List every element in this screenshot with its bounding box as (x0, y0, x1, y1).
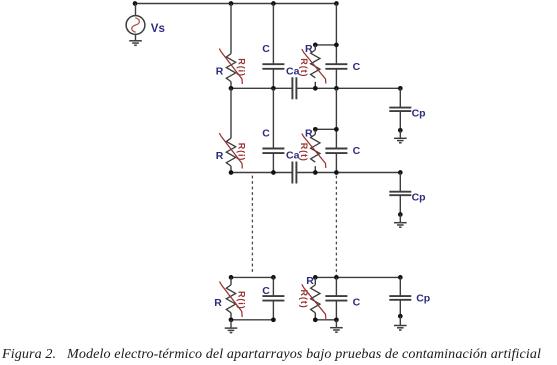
wire rail2 left part (231, 172, 292, 174)
svg-text:C: C (262, 127, 270, 139)
svg-text:R(i): R(i) (237, 291, 247, 310)
wire R3 top (230, 88, 232, 138)
wire Vs to top rail (135, 4, 137, 16)
resistor R6 (R(t)) bottom right (311, 285, 320, 313)
wire bottom-left rail (231, 319, 273, 321)
dashed continuation left (251, 176, 253, 273)
wire R6 top (314, 277, 316, 285)
wire top rail (135, 3, 336, 5)
wire R4 top stem (314, 129, 316, 134)
resistor R1 (R(i)) section 1 left (226, 54, 235, 82)
svg-text:R(t): R(t) (299, 143, 309, 162)
wire jog section 1 (315, 44, 336, 46)
svg-text:R(i): R(i) (237, 143, 247, 162)
ground at Cp2 (394, 223, 407, 228)
wire to ground bottom-left (230, 320, 232, 328)
junction bottom-right rail at C (334, 317, 339, 322)
resistor R4 (R(t)) section 2 right (311, 134, 320, 162)
svg-text:C: C (262, 43, 270, 55)
ground at Cp1 (394, 138, 407, 143)
junction rail2 at C right (334, 170, 339, 175)
resistor R3 (R(i)) section 2 left (226, 138, 235, 166)
junction rail1 at Cp corner (398, 86, 403, 91)
svg-text:R: R (305, 43, 313, 55)
junction rail1 at C1 (271, 86, 276, 91)
junction bottom-left rail at R5 (229, 317, 234, 322)
caption Figura 2 (2, 346, 557, 363)
capacitor C section 2 left (262, 149, 284, 154)
wire C bottom-left top (272, 277, 274, 296)
svg-text:R: R (216, 66, 224, 78)
wire Cp1 bottom (399, 111, 401, 130)
variable arrow on R2 (302, 49, 326, 84)
ground at Vs (129, 41, 142, 46)
wire R3 bottom (230, 166, 232, 172)
junction jog2 left (313, 127, 318, 132)
junction bottom-left rail at C (271, 317, 276, 322)
svg-text:Cp: Cp (412, 192, 426, 204)
capacitor Cp3 (389, 296, 411, 300)
junction rail1 at R1 (229, 86, 234, 91)
wire R1 bottom (230, 82, 232, 89)
variable arrow on R1 (219, 49, 242, 85)
capacitor Cp1 (389, 108, 411, 112)
wire Cp2 top (399, 173, 401, 192)
junction rail2 at R3 (229, 170, 234, 175)
capacitor C section 1 left (262, 64, 284, 69)
variable arrow on R6 (302, 284, 326, 319)
junction top rail at C column (271, 1, 276, 6)
junction jog1 right (334, 43, 339, 48)
junction bottom-right rail at R6 (313, 317, 318, 322)
svg-text:Cp: Cp (412, 107, 426, 119)
svg-text:Cp: Cp (416, 293, 430, 305)
junction rail3 at C left (271, 275, 276, 280)
junction top rail right corner (334, 1, 339, 6)
junction top rail at R column (229, 1, 234, 6)
capacitor C section 1 right (325, 64, 347, 69)
capacitor Ca section 2 (292, 162, 296, 184)
ground bottom right (330, 328, 343, 333)
capacitor Ca section 1 (292, 77, 296, 99)
wire R6 bottom (314, 313, 316, 320)
junction rail2 at C2 (271, 170, 276, 175)
wire C bottom-right top (335, 277, 337, 296)
wire Cp3 to ground (399, 316, 401, 325)
junction Cp2 bottom (398, 212, 403, 217)
svg-text:R(t): R(t) (299, 290, 309, 309)
svg-text:C: C (262, 285, 270, 297)
wire R5 top (230, 277, 232, 285)
wire bottom-right rail (315, 319, 336, 321)
wire C1 bottom (272, 69, 274, 89)
wire Cp2 to ground (399, 215, 401, 223)
resistor R2 (R(t)) section 1 right (311, 50, 320, 78)
junction top rail at Vs (133, 1, 138, 6)
junction jog1 left (313, 43, 318, 48)
wire C2 bottom (272, 153, 274, 172)
junction rail3 at C right (334, 275, 339, 280)
wire C bottom-left bottom (272, 301, 274, 320)
capacitor Cp2 (389, 192, 411, 196)
svg-text:C: C (353, 145, 361, 157)
dashed continuation right (335, 176, 337, 276)
svg-text:R: R (305, 128, 313, 140)
junction Cp3 bottom (398, 314, 403, 319)
wire rail1 right part (296, 87, 400, 89)
junction rail1 at R2 (313, 86, 318, 91)
junction Cp1 bottom (398, 128, 403, 133)
variable arrow on R4 (302, 133, 326, 168)
wire rail2 right part (296, 172, 400, 174)
wire C right section1 bottom (335, 69, 337, 89)
svg-text:Ca: Ca (286, 65, 300, 77)
wire rail3 right group (315, 276, 400, 278)
wire Cp3 bottom (399, 300, 401, 316)
svg-text:Vs: Vs (151, 23, 165, 35)
wire R2 bottom (314, 82, 316, 89)
wire C1 top (272, 4, 274, 65)
capacitor C bottom right (325, 296, 347, 301)
junction rail2 at Cp corner (398, 170, 403, 175)
wire R5 bottom (230, 313, 232, 320)
wire R1 top (230, 4, 232, 54)
junction rail3 at R5 (229, 275, 234, 280)
ground bottom left (225, 328, 238, 333)
capacitor C bottom left (262, 296, 284, 301)
wire Cp3 top (399, 277, 401, 296)
junction rail3 at Cp3 (398, 275, 403, 280)
wire jog section 2 (315, 128, 336, 130)
wire to ground bottom-right (335, 320, 337, 328)
resistor R5 (R(i)) bottom left (226, 285, 235, 313)
junction jog2 right (334, 127, 339, 132)
wire Vs to ground (135, 34, 137, 40)
wire rail1 left part (231, 87, 292, 89)
ground at Cp3 (394, 326, 407, 331)
wire Cp1 to ground (399, 130, 401, 138)
voltage source Vs (126, 16, 145, 35)
svg-text:R: R (216, 150, 224, 162)
variable arrow on R3 (219, 133, 242, 169)
wire R4 bottom (314, 166, 316, 172)
svg-text:R(t): R(t) (299, 58, 309, 77)
wire right column section 1 (335, 4, 337, 65)
junction rail1 at C right (334, 86, 339, 91)
wire C right section2 bottom (335, 153, 337, 172)
wire Cp2 bottom (399, 195, 401, 214)
svg-text:C: C (353, 297, 361, 309)
svg-text:Ca: Ca (286, 150, 300, 162)
svg-text:R: R (306, 275, 314, 287)
variable arrow on R5 (220, 282, 243, 318)
wire C bottom-right bottom (335, 301, 337, 320)
wire rail3 left group (231, 276, 273, 278)
svg-text:C: C (353, 61, 361, 73)
wire right column section 2 (335, 88, 337, 148)
capacitor C section 2 right (325, 149, 347, 154)
junction rail3 at R6 (313, 275, 318, 280)
wire R2 top stem (314, 45, 316, 50)
wire Cp1 top (399, 88, 401, 107)
svg-text:R: R (214, 297, 222, 309)
junction rail2 at R4 (313, 170, 318, 175)
wire C2 top (272, 88, 274, 148)
svg-text:R(i): R(i) (237, 58, 247, 77)
